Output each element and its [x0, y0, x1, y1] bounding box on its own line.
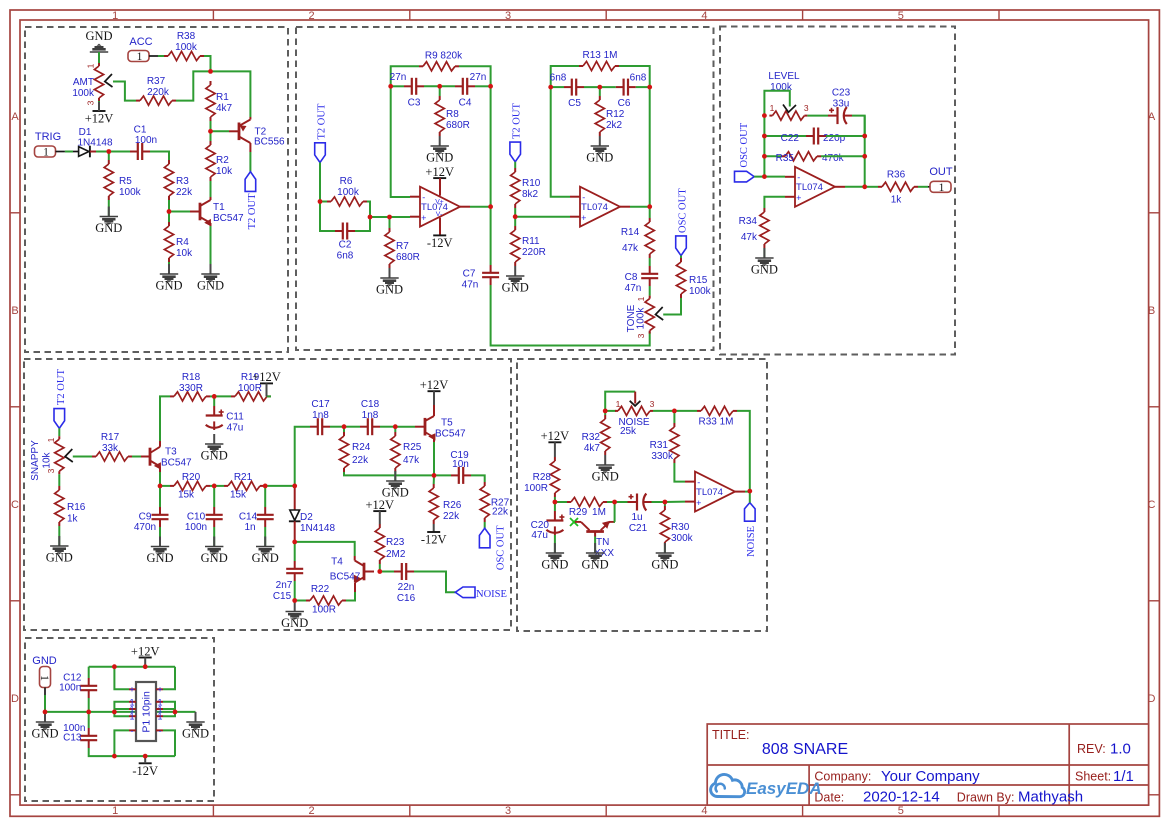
svg-text:C23: C23 [832, 88, 851, 99]
svg-text:220p: 220p [823, 133, 846, 144]
capacitor C3 27n [404, 85, 412, 87]
ground (R4) [168, 264, 170, 274]
svg-text:680R: 680R [446, 120, 470, 131]
svg-text:1M: 1M [592, 507, 606, 518]
resistor R24 22k [343, 432, 345, 436]
svg-text:100k: 100k [337, 187, 360, 198]
svg-text:470k: 470k [822, 153, 845, 164]
net flag OSC OUT (C) [479, 528, 490, 548]
svg-text:1: 1 [112, 10, 118, 22]
svg-text:47k: 47k [403, 455, 420, 466]
ground (R11) [514, 266, 516, 276]
svg-text:1n8: 1n8 [362, 410, 379, 421]
wire R9 right [459, 66, 491, 86]
resistor R10 8k2 [514, 168, 516, 172]
svg-text:R30: R30 [671, 522, 690, 533]
port OUT [930, 181, 951, 194]
svg-text:TL074: TL074 [696, 487, 723, 498]
wire node to C16 [380, 571, 394, 573]
wire node to op-amp IN+ [370, 216, 410, 218]
wire LEVEL right to C23 [807, 115, 828, 117]
wire R31 to IN- [674, 463, 685, 482]
svg-text:+12V: +12V [252, 370, 281, 384]
svg-text:TL074: TL074 [581, 202, 608, 213]
junction C18/R25/T5 base [393, 424, 398, 429]
wire node to T5 base [395, 426, 415, 428]
svg-text:R3: R3 [176, 176, 189, 187]
wire C1 to R3 [150, 152, 169, 161]
svg-text:GND: GND [586, 151, 613, 165]
net flag NOISE (C) [455, 587, 475, 598]
svg-text:GND: GND [582, 558, 609, 572]
svg-text:3: 3 [636, 333, 646, 338]
wire node to C2 left [320, 202, 335, 232]
wire T1 emitter to gnd [210, 226, 212, 274]
wire R19 to +12V [267, 395, 272, 397]
net flag T2 OUT (1) [245, 172, 256, 192]
svg-text:R35: R35 [776, 153, 795, 164]
wire node to T2 emitter [211, 71, 251, 117]
svg-text:C3: C3 [408, 98, 421, 109]
wire node to R19 [214, 395, 231, 397]
wire R4 to gnd [168, 262, 170, 274]
wire C8 to TONE [649, 286, 651, 296]
ground (R5) [108, 207, 110, 217]
svg-text:GND: GND [182, 727, 209, 741]
svg-text:C4: C4 [459, 98, 472, 109]
junction C5 left [548, 85, 553, 90]
svg-text:R11: R11 [522, 236, 540, 247]
svg-text:R37: R37 [147, 76, 166, 87]
wire T3 emitter to node [159, 472, 161, 486]
wire bottom-right pin [163, 730, 175, 756]
junction R21/C14 [263, 484, 268, 489]
junction C4/output column [488, 84, 493, 89]
svg-text:100R: 100R [524, 483, 548, 494]
svg-text:B: B [1148, 305, 1155, 317]
wire R25 to gnd [394, 472, 396, 481]
transistor T5 BC547 (NPN) [415, 426, 425, 428]
svg-text:R36: R36 [887, 170, 906, 181]
svg-text:C1: C1 [134, 125, 147, 136]
wire base node to R2 [210, 131, 212, 141]
ground (R8) [439, 136, 441, 146]
junction left pins rail [112, 710, 117, 715]
net flag T2 OUT (4) [54, 409, 65, 429]
svg-text:GND: GND [651, 558, 678, 572]
power -12V (P1) [139, 762, 152, 764]
svg-text:R21: R21 [234, 472, 253, 483]
svg-text:+12V: +12V [425, 165, 454, 179]
junction R35 left [762, 154, 767, 159]
capacitor C11 47u (polarized) [213, 406, 215, 416]
svg-text:C18: C18 [361, 399, 380, 410]
ground (C15) [294, 602, 296, 612]
svg-text:2020-12-14: 2020-12-14 [863, 789, 940, 806]
resistor R14 47k [649, 218, 651, 222]
op-amp U1B TL074 [580, 187, 620, 227]
wire R9 left [398, 65, 419, 67]
wire flag4 to SNAPPY [58, 428, 60, 436]
junction C15/R22/gnd [292, 598, 297, 603]
wire mid-right pin 3 [163, 708, 175, 710]
svg-text:100k: 100k [72, 88, 95, 99]
junction op4 output [747, 489, 752, 494]
ground (TN) [594, 543, 596, 553]
junction T4 base/R23/C16 [377, 569, 382, 574]
svg-text:8k2: 8k2 [522, 189, 539, 200]
wire R17 to T3 base [132, 456, 141, 458]
resistor R26 22k [433, 484, 435, 488]
op-amp U1A TL074 [420, 187, 460, 227]
svg-text:C21: C21 [629, 523, 648, 534]
section box B (oscillators) [296, 27, 714, 350]
wire op1 out [470, 206, 491, 208]
svg-text:100k: 100k [175, 42, 198, 53]
svg-text:10k: 10k [216, 166, 233, 177]
junction C3/C4/R8 [437, 84, 442, 89]
AMT wiper arrow [105, 74, 113, 87]
wire output column 2 [649, 87, 651, 218]
wire node to R20 [160, 485, 170, 487]
wire bottom rail [114, 755, 175, 757]
svg-text:C: C [1148, 499, 1156, 511]
svg-text:T2 OUT: T2 OUT [512, 103, 523, 139]
svg-text:-12V: -12V [427, 236, 453, 250]
svg-text:GND: GND [252, 551, 279, 565]
wire C4 right [475, 85, 491, 87]
wire R5 to gnd [108, 200, 110, 217]
ground (R25) [394, 471, 396, 481]
resistor R11 220R [514, 226, 516, 230]
wire R8 down [439, 86, 441, 96]
junction NOISE right/R31 [672, 409, 677, 414]
svg-text:1: 1 [86, 63, 96, 68]
wire C7 to bottom rail [491, 285, 650, 346]
svg-text:R28: R28 [533, 472, 552, 483]
R28 stem [554, 442, 556, 457]
wire node to C18 [344, 426, 360, 428]
svg-text:Drawn By:: Drawn By: [957, 791, 1015, 805]
svg-text:C9: C9 [139, 512, 152, 523]
transistor T4 BC547 (NPN, mirrored) [364, 571, 374, 573]
junction R28/C20/R29 [553, 500, 558, 505]
resistor R22 100R [306, 600, 310, 602]
wire rail to right [114, 711, 175, 713]
svg-text:R14: R14 [621, 227, 640, 238]
svg-text:R23: R23 [386, 537, 405, 548]
ground (C9) [159, 537, 161, 547]
section box D (noise) [517, 359, 767, 631]
ground (R7) [389, 268, 391, 278]
junction D1/R5/C1 [106, 149, 111, 154]
wire op4 out [745, 491, 750, 493]
wire base node to T2 [211, 130, 230, 132]
svg-text:1: 1 [46, 437, 56, 442]
svg-text:1: 1 [157, 712, 162, 722]
wire op2 IN- feedback [551, 87, 570, 197]
svg-text:GND: GND [95, 221, 122, 235]
ACC port lead [149, 55, 158, 57]
svg-text:SNAPPY: SNAPPY [30, 440, 41, 481]
svg-text:47u: 47u [531, 530, 548, 541]
svg-text:22k: 22k [492, 507, 509, 518]
net flag T2 OUT (2) [315, 143, 326, 163]
wire node to C1 [109, 151, 130, 153]
svg-text:1N4148: 1N4148 [77, 138, 112, 149]
svg-text:3: 3 [505, 10, 511, 22]
wire TN base to gnd [594, 537, 596, 554]
net flag NOISE (D) [745, 503, 756, 522]
svg-text:C11: C11 [226, 412, 244, 423]
resistor R31 330k [673, 423, 675, 427]
capacitor C6 6n8 [616, 86, 624, 88]
svg-text:GND: GND [201, 449, 228, 463]
svg-text:R22: R22 [311, 584, 330, 595]
diode D1 1N4148 [73, 151, 79, 153]
svg-text:GND: GND [376, 283, 403, 297]
wire R13 left [558, 65, 579, 67]
svg-text:3: 3 [650, 399, 655, 409]
svg-text:+12V: +12V [366, 498, 395, 512]
ground (R32) [604, 455, 606, 465]
resistor R21 15k [224, 485, 228, 487]
svg-text:808 SNARE: 808 SNARE [762, 741, 848, 758]
svg-text:47n: 47n [625, 283, 642, 294]
wire right column [864, 116, 866, 187]
resistor R29 1M [567, 501, 571, 503]
svg-text:BC556: BC556 [254, 137, 285, 148]
junction R18/R19/C11 [212, 394, 217, 399]
wire flag to R6 node [319, 163, 321, 202]
svg-text:R25: R25 [403, 442, 422, 453]
capacitor C14 1n [264, 507, 266, 515]
transistor T3 BC547 (NPN) [141, 456, 150, 458]
wire C19 to R27 [471, 475, 485, 482]
svg-text:1k: 1k [67, 514, 79, 525]
svg-text:C8: C8 [625, 272, 638, 283]
svg-text:D1: D1 [79, 127, 92, 138]
svg-text:R5: R5 [119, 176, 132, 187]
power +12V (P1) [139, 657, 152, 659]
wire node to R6 [320, 201, 327, 203]
svg-text:1/1: 1/1 [1113, 768, 1134, 785]
TONE wiper arrow [656, 307, 664, 320]
wire C10 down [213, 486, 215, 507]
wire R2 to T1 collector [210, 181, 212, 197]
P1 pin row 5 leads [129, 729, 136, 731]
svg-text:100n: 100n [185, 522, 207, 533]
svg-text:1: 1 [43, 147, 49, 159]
capacitor C17 1n8 [310, 426, 318, 428]
wire pot left node down [604, 408, 606, 415]
transistor T2 BC556 (PNP) [229, 130, 239, 132]
svg-text:-12V: -12V [421, 533, 447, 547]
resistor R19 100R [231, 395, 235, 397]
svg-text:C22: C22 [781, 133, 800, 144]
net flag OSC OUT (F) [735, 171, 755, 182]
wire R21 to C14 node [264, 485, 265, 487]
ground (right) [195, 712, 197, 722]
junction C22 left [762, 134, 767, 139]
power +12V (op-amp 1) [433, 177, 446, 179]
svg-text:1n8: 1n8 [312, 410, 329, 421]
right gnd stem [195, 712, 197, 722]
wire C5 left [551, 86, 564, 88]
NOISE wiper arrow [630, 401, 641, 406]
svg-text:4: 4 [701, 805, 707, 817]
junction flag/R6/C2 [318, 199, 323, 204]
junction IN- node [762, 174, 767, 179]
svg-text:T4: T4 [331, 557, 343, 568]
svg-text:100R: 100R [312, 605, 336, 616]
svg-text:-: - [697, 477, 700, 487]
svg-text:R1: R1 [216, 92, 229, 103]
wire R30 down [664, 502, 666, 506]
svg-text:R7: R7 [396, 241, 409, 252]
capacitor C16 22n [394, 571, 402, 573]
svg-text:NOISE: NOISE [476, 589, 507, 600]
wire R6 to right node [367, 202, 370, 218]
connector P1 10pin body [136, 682, 156, 741]
svg-text:BC547: BC547 [435, 429, 466, 440]
svg-text:R12: R12 [606, 109, 625, 120]
wire rail to C19 [434, 474, 451, 476]
svg-text:15k: 15k [178, 490, 195, 501]
svg-text:-: - [582, 193, 585, 203]
power +12V (R19) [260, 382, 273, 384]
resistor R20 15k [170, 485, 174, 487]
op-amp U1D TL074 [695, 472, 735, 512]
wire node to R22 [295, 600, 306, 602]
capacitor C4 27n [455, 85, 463, 87]
wire top loop 2 left [551, 66, 558, 87]
wire output column [490, 86, 492, 265]
wire R37 to node [176, 71, 211, 100]
ground (R12) [599, 136, 601, 146]
svg-text:27n: 27n [470, 72, 487, 83]
svg-text:TITLE:: TITLE: [712, 728, 750, 742]
svg-text:22k: 22k [443, 511, 460, 522]
svg-text:T5: T5 [441, 418, 453, 429]
svg-text:ACC: ACC [129, 36, 152, 48]
svg-text:GND: GND [85, 29, 112, 43]
svg-text:GND: GND [592, 470, 619, 484]
svg-text:+: + [796, 193, 801, 203]
wire C5-C6 mid [584, 86, 616, 88]
P1 pin row 3 leads [129, 708, 136, 710]
svg-text:1u: 1u [631, 512, 642, 523]
svg-text:GND: GND [426, 151, 453, 165]
svg-text:C15: C15 [273, 591, 292, 602]
op-amp U1C TL074 [795, 167, 835, 207]
svg-text:GND: GND [281, 616, 308, 630]
potentiometer AMT 100k body [98, 63, 100, 66]
resistor R33 1M [697, 410, 701, 412]
resistor R12 2k2 [599, 96, 601, 100]
svg-text:1: 1 [129, 712, 134, 722]
svg-text:R13 1M: R13 1M [582, 50, 617, 61]
wire R38 to node [204, 56, 211, 71]
wire flag3 to R10 [514, 162, 516, 168]
svg-text:OSC OUT: OSC OUT [496, 525, 507, 570]
junction gnd port/rail [43, 710, 48, 715]
P1 pin row 1 leads [129, 688, 136, 690]
diode D2 1N4148 [294, 486, 296, 510]
wire node to R4 [168, 212, 170, 223]
svg-text:Sheet:: Sheet: [1075, 770, 1111, 784]
svg-text:C17: C17 [311, 399, 330, 410]
ground (C20) [554, 543, 556, 553]
resistor R34 47k [763, 208, 765, 212]
ground (C14) [264, 537, 266, 547]
svg-text:NOISE: NOISE [746, 526, 757, 557]
resistor R28 100R [554, 457, 556, 461]
resistor R2 10k [210, 141, 212, 145]
junction C6/output column 2 [647, 85, 652, 90]
svg-text:1n: 1n [244, 522, 255, 533]
wire R16 to gnd [58, 526, 60, 546]
svg-text:1: 1 [38, 675, 50, 681]
wire R1 to base node [210, 121, 212, 131]
junction D2/C15/T4 collector [292, 540, 297, 545]
svg-text:R26: R26 [443, 500, 462, 511]
wire R25 top [394, 427, 396, 432]
port ACC [128, 51, 149, 64]
svg-text:+12V: +12V [131, 644, 160, 658]
wire rail right end [175, 711, 196, 713]
junction T5e/rail/C19 [432, 473, 437, 478]
junction bottom rail left [112, 754, 117, 759]
resistor R3 22k [168, 160, 170, 164]
svg-text:OSC OUT: OSC OUT [739, 122, 750, 167]
transistor T1 BC547 (NPN) [190, 211, 200, 213]
wire AMT to +12V [98, 101, 100, 104]
wire R7 node down [389, 217, 391, 228]
wire R3 to node [168, 200, 170, 212]
capacitor C8 47n [649, 266, 651, 274]
resistor R30 300k [664, 506, 666, 510]
svg-text:R16: R16 [67, 502, 86, 513]
resistor R27 22k [484, 482, 486, 486]
svg-text:2: 2 [309, 805, 315, 817]
capacitor C1 100n [130, 151, 138, 153]
wire bottom-left pin [114, 730, 129, 756]
svg-text:+12V: +12V [541, 429, 570, 443]
resistor R6 100k [327, 201, 331, 203]
resistor R38 100k [164, 55, 168, 57]
svg-text:-: - [797, 173, 800, 183]
svg-text:R2: R2 [216, 155, 229, 166]
svg-text:C10: C10 [187, 512, 206, 523]
resistor R9 820k [419, 65, 423, 67]
ground (R34) [763, 248, 765, 258]
svg-text:AMT: AMT [73, 77, 94, 88]
wire C12 to rail [88, 698, 90, 712]
svg-text:R9 820k: R9 820k [425, 51, 463, 62]
svg-text:GND: GND [201, 551, 228, 565]
junction C3 left [388, 84, 393, 89]
svg-text:22n: 22n [398, 582, 415, 593]
capacitor C5 6n8 [564, 86, 572, 88]
wire top-left pin [114, 667, 129, 690]
wire R26 down [433, 475, 435, 484]
svg-text:Company:: Company: [814, 770, 871, 784]
wire C2 to node [355, 217, 370, 231]
svg-text:GND: GND [146, 551, 173, 565]
wire top rail [89, 666, 175, 668]
wire left column [763, 116, 765, 177]
